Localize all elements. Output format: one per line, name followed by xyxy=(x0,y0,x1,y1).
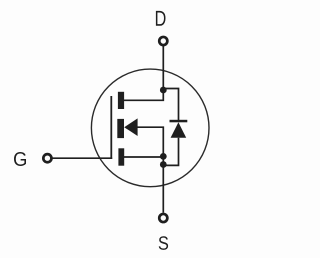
junction dot: drain node xyxy=(160,87,167,94)
label S (source) xyxy=(159,236,168,250)
wire: diode anode to source node xyxy=(163,138,178,166)
wire: D terminal down to drain node xyxy=(162,46,164,90)
wire: source node down to S terminal xyxy=(162,156,164,213)
source contact bar xyxy=(118,148,124,165)
label D (drain) xyxy=(156,11,166,26)
gate electrode line xyxy=(110,96,112,159)
diode D1 cathode bar xyxy=(170,120,188,123)
drain contact bar xyxy=(118,92,124,109)
terminal S pin circle xyxy=(159,214,167,222)
label G (gate) xyxy=(14,152,26,166)
wire: source contact to source node xyxy=(124,156,163,158)
diode D1 anode triangle xyxy=(171,122,187,138)
junction dot: source node xyxy=(160,153,167,160)
transistor body circle U1 xyxy=(91,69,209,187)
wire: drain contact to drain node xyxy=(124,90,163,100)
terminal G pin circle xyxy=(43,154,51,162)
body contact bar xyxy=(117,119,124,138)
substrate arrow (points to channel) xyxy=(124,118,137,136)
terminal D pin circle xyxy=(159,37,167,45)
junction dot: diode anode node xyxy=(160,161,167,168)
wire: drain node to diode cathode xyxy=(163,89,178,122)
wire: body arrow to source node xyxy=(138,127,164,156)
wire: G terminal to gate xyxy=(52,157,112,159)
